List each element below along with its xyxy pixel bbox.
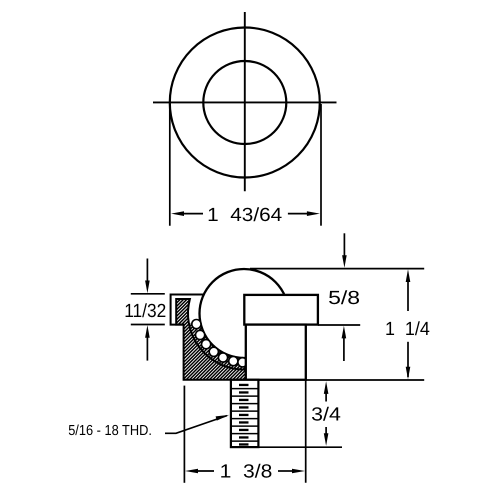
svg-text:5/8: 5/8 <box>328 288 360 309</box>
ball top extension line <box>250 268 424 270</box>
dim line 1 43/64 right arrow <box>288 211 320 216</box>
cup flange outline <box>171 295 204 325</box>
bearing balls <box>192 320 247 367</box>
body upper flange rect <box>244 295 318 325</box>
threaded stud outline <box>231 380 259 447</box>
body lower block rect <box>246 325 306 380</box>
cup housing hatched section <box>176 299 246 380</box>
bearing ball band hatch <box>189 321 248 369</box>
svg-text:3/4: 3/4 <box>311 404 341 425</box>
vertical centerline <box>244 12 246 191</box>
dim line 1 43/64 left arrow <box>171 211 203 216</box>
leader arrowhead <box>216 415 230 421</box>
body right edge extended down (3/4, 1 3/8 ext) <box>305 380 307 483</box>
bottom extension line of housing (right) <box>306 379 424 381</box>
stud bottom extension line <box>258 446 342 448</box>
arrow up <box>406 269 411 311</box>
svg-text:1 43/64: 1 43/64 <box>207 205 282 226</box>
horizontal centerline <box>153 101 337 103</box>
right arrow <box>278 469 305 474</box>
arrow down <box>406 342 411 380</box>
extension line right <box>320 104 322 226</box>
svg-text:11/32: 11/32 <box>124 301 166 322</box>
outer circle <box>170 28 320 178</box>
thread rungs <box>231 389 259 442</box>
arrow down above ball top line <box>342 233 347 267</box>
arrow up to bottom tick <box>145 325 150 361</box>
svg-text:5/16 - 18 THD.: 5/16 - 18 THD. <box>68 423 152 439</box>
leader line <box>165 416 227 434</box>
svg-text:1 1/4: 1 1/4 <box>385 319 430 340</box>
inner circle <box>203 61 286 144</box>
arrow up below step line <box>342 326 347 361</box>
body step extension line (5/8) <box>318 324 360 326</box>
ball <box>200 269 289 358</box>
tick bottom <box>131 324 165 326</box>
svg-text:1 3/8: 1 3/8 <box>220 462 273 483</box>
left extension line <box>183 386 185 483</box>
arrow down to top tick <box>145 259 150 294</box>
arrow down <box>324 427 329 446</box>
extension line left <box>169 104 171 226</box>
tick top <box>131 293 165 295</box>
thread center dashes <box>239 384 249 446</box>
left arrow <box>185 469 214 474</box>
arrow up <box>324 381 329 401</box>
